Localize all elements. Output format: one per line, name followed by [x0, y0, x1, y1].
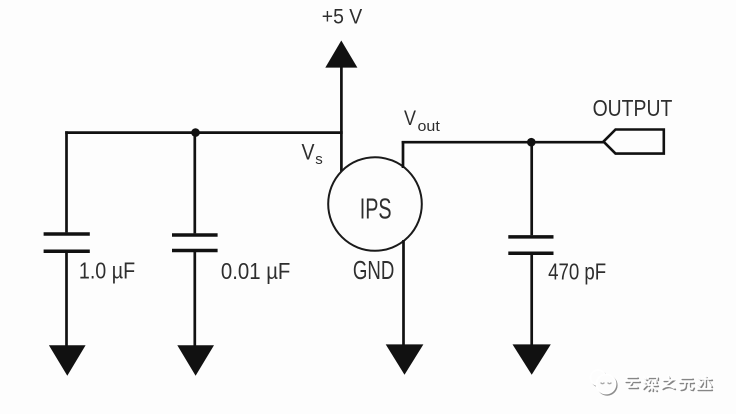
svg-text:V: V: [302, 139, 315, 164]
wire: C2 top lead: [193, 133, 196, 234]
wire: C3 top lead: [530, 142, 533, 235]
wire: +5V supply down to Vs rail and IPS: [340, 66, 343, 172]
svg-text:+5 V: +5 V: [322, 6, 363, 29]
wire: C1 top lead: [65, 131, 68, 232]
power +5V arrow: [325, 41, 357, 68]
wire: Vout vertical lead from IPS: [402, 141, 405, 168]
wire: IPS GND lead: [402, 240, 405, 346]
junction node (Vs rail / C2): [191, 128, 200, 137]
capacitor C1 plates: [44, 234, 90, 251]
wire: C1 bottom lead: [65, 251, 68, 347]
svg-text:out: out: [418, 118, 441, 135]
capacitor C3 plates: [508, 237, 553, 253]
junction node (Vout rail / C3): [527, 138, 536, 147]
watermark text 云深之无迹 (embossed drawn strokes): [625, 376, 712, 391]
svg-text:V: V: [404, 107, 416, 130]
svg-text:IPS: IPS: [360, 193, 392, 225]
OUTPUT connector tag: [604, 130, 664, 154]
svg-text:1.0 µF: 1.0 µF: [79, 257, 135, 283]
svg-text:OUTPUT: OUTPUT: [593, 95, 673, 121]
ground arrow (C2): [177, 345, 214, 376]
svg-text:0.01 µF: 0.01 µF: [221, 258, 291, 284]
capacitor C2 plates: [172, 235, 218, 251]
wire: Vs horizontal rail: [65, 131, 343, 134]
wire: C2 bottom lead: [193, 251, 196, 348]
ground arrow (C3): [513, 344, 551, 374]
ground arrow (C1): [49, 345, 86, 376]
IPS sensor U1 (circle body): [328, 157, 422, 251]
ground arrow (IPS GND): [386, 344, 424, 374]
wire: Vout horizontal rail: [402, 141, 605, 144]
node Vout label: [404, 107, 441, 135]
wire: C3 bottom lead: [530, 253, 533, 346]
svg-text:GND: GND: [353, 255, 394, 285]
svg-text:470 pF: 470 pF: [548, 259, 606, 285]
svg-text:s: s: [315, 151, 323, 168]
watermark logo (chat bubbles, embossed): [591, 370, 617, 395]
node Vs label: [302, 139, 323, 168]
